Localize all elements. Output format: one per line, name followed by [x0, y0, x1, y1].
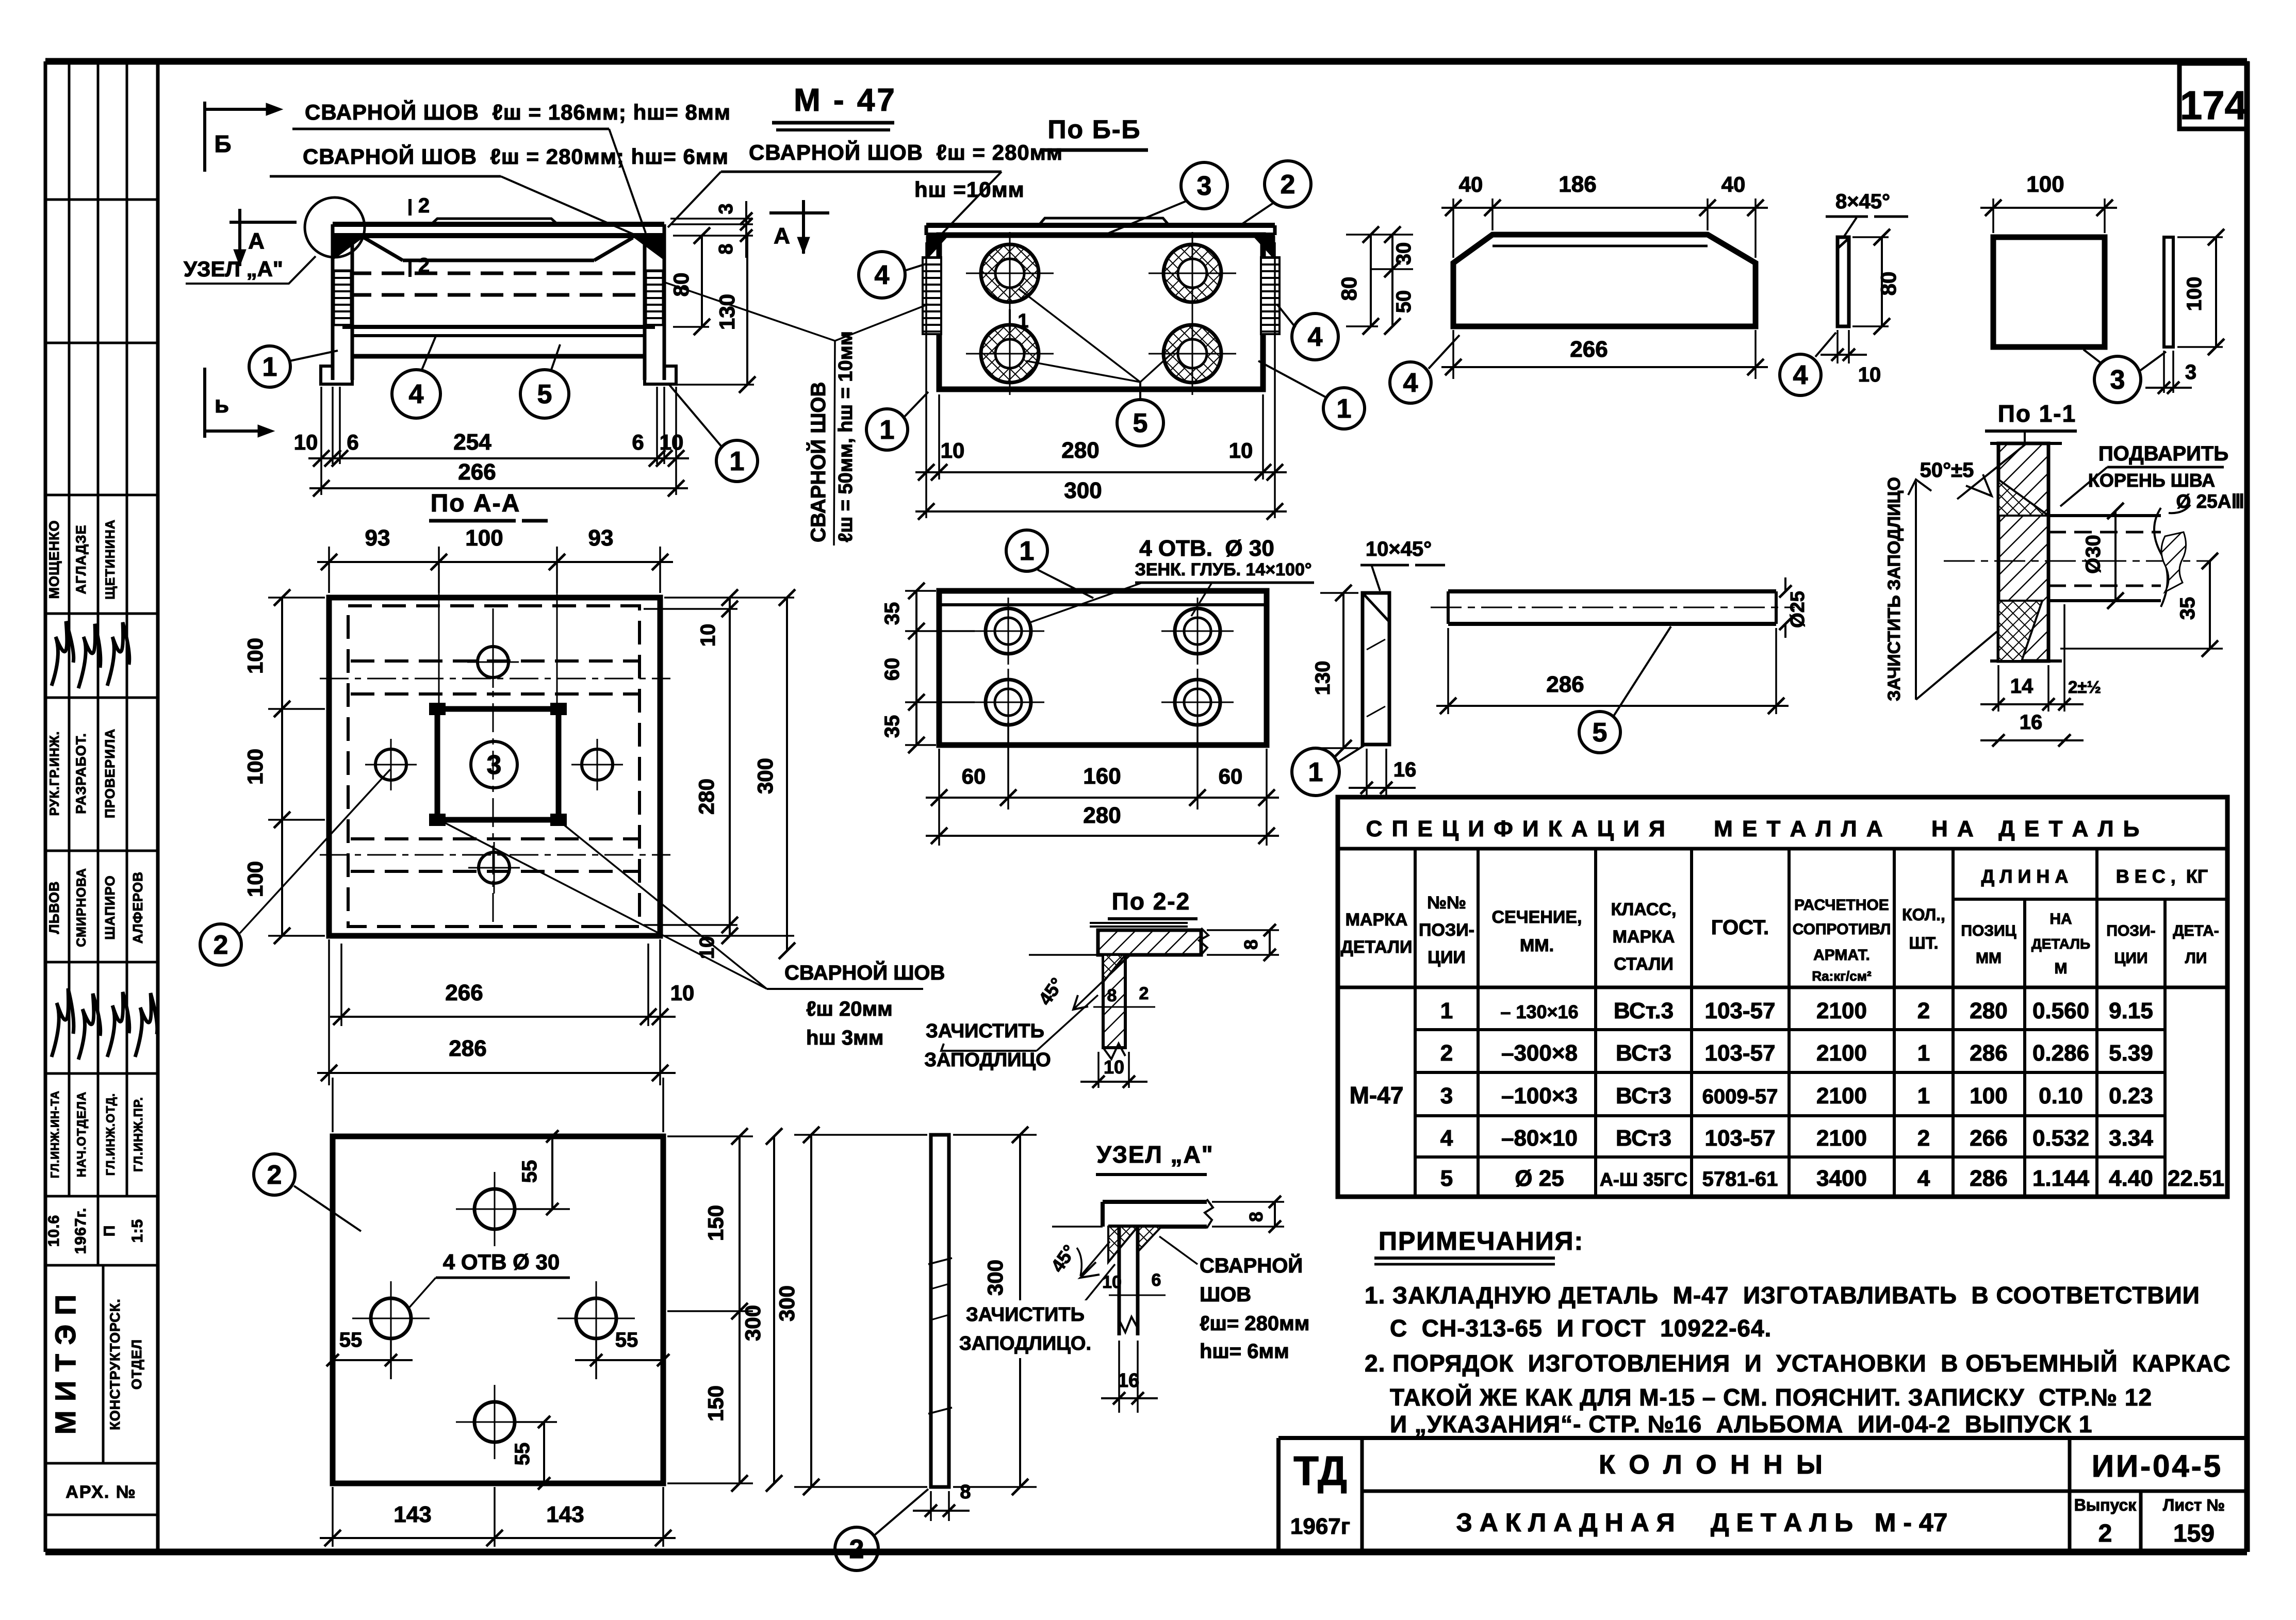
main plate pos1 section B-B	[939, 235, 1263, 389]
svg-text:ℓш= 280мм: ℓш= 280мм	[1200, 1312, 1309, 1335]
svg-text:266: 266	[1970, 1126, 2007, 1151]
dim 8 right of plate	[1207, 929, 1279, 931]
sidebar row line	[45, 199, 158, 201]
svg-text:СВАРНОЙ ШОВ ℓш = 280мм: СВАРНОЙ ШОВ ℓш = 280мм	[749, 140, 1063, 164]
balloon 4 right B-B	[1292, 313, 1338, 360]
pos1 leg section hatched	[1103, 955, 1125, 1048]
svg-text:5: 5	[1440, 1166, 1453, 1191]
svg-text:143: 143	[393, 1502, 431, 1527]
svg-text:2100: 2100	[1816, 1040, 1867, 1066]
pos2 plate section hatched	[1098, 930, 1201, 955]
45 deg leader 2-2	[1073, 954, 1131, 1010]
rod dim line 286	[1436, 705, 1789, 707]
svg-text:40: 40	[1721, 172, 1746, 196]
svg-text:286: 286	[1970, 1040, 2007, 1066]
leg break V	[1103, 1044, 1125, 1059]
svg-text:100: 100	[2183, 277, 2206, 311]
svg-text:2: 2	[1440, 1040, 1453, 1066]
svg-text:3: 3	[1197, 171, 1212, 201]
B-B dim ext lines	[925, 242, 927, 518]
svg-text:280: 280	[1970, 998, 2007, 1023]
svg-text:1: 1	[1917, 1083, 1930, 1109]
svg-text:2: 2	[1281, 170, 1295, 200]
svg-text:– 130×16: – 130×16	[1500, 1001, 1578, 1022]
sidebar row line	[45, 697, 158, 699]
balloon 1 bottom right of view1	[716, 440, 758, 482]
svg-text:3: 3	[2110, 365, 2125, 395]
svg-text:16: 16	[1393, 758, 1417, 781]
50 deg chamfer line	[1957, 442, 2028, 499]
svg-text:ВСт.3: ВСт.3	[1614, 998, 1674, 1023]
plan hole left	[375, 749, 406, 780]
sidebar column line 3	[126, 61, 128, 1196]
svg-text:ДЕТАЛЬ: ДЕТАЛЬ	[2031, 936, 2090, 952]
svg-text:ВСт3: ВСт3	[1616, 1083, 1671, 1109]
svg-text:22.51: 22.51	[2168, 1166, 2224, 1191]
spec table row line	[1415, 1028, 2165, 1031]
svg-text:1: 1	[1020, 536, 1035, 566]
balloon 2 leader	[294, 1186, 361, 1231]
sheet frame right border	[2244, 61, 2250, 1552]
svg-text:4 ОТВ Ø 30: 4 ОТВ Ø 30	[443, 1250, 560, 1274]
uzel weld left crosshatch	[1108, 1227, 1138, 1262]
plate pos2 face view square	[333, 1136, 663, 1483]
pos2 hole right	[576, 1298, 616, 1338]
hidden dashed line upper	[349, 272, 649, 275]
svg-text:0.532: 0.532	[2032, 1126, 2089, 1151]
balloon 4 right leader	[1277, 304, 1295, 327]
sidebar row line	[45, 1072, 158, 1075]
plate pos3 face view square	[1993, 237, 2105, 347]
spec table column line	[1690, 849, 1693, 1197]
svg-text:40: 40	[1459, 172, 1483, 196]
svg-text:П: П	[101, 1225, 118, 1237]
svg-text:М-47: М-47	[1350, 1082, 1404, 1109]
svg-text:8: 8	[1245, 1212, 1267, 1222]
weld note leader left to view1	[668, 172, 721, 227]
svg-text:КОРЕНЬ ШВА: КОРЕНЬ ШВА	[2088, 470, 2215, 491]
svg-text:И „УКАЗАНИЯ“- СТР. №16 АЛЬБОМ: И „УКАЗАНИЯ“- СТР. №16 АЛЬБОМА ИИ-04-2 В…	[1390, 1411, 2092, 1437]
svg-text:160: 160	[1083, 764, 1121, 789]
end plate pos4 right hatched	[1261, 257, 1280, 334]
label leaders to holes	[1029, 583, 1142, 623]
balloon 4 under trapezoid	[1390, 362, 1431, 403]
svg-text:6009-57: 6009-57	[1702, 1085, 1778, 1108]
weld triangle right	[633, 237, 663, 259]
svg-text:ПОЗИЦ: ПОЗИЦ	[1961, 922, 2016, 939]
balloon 3 bottom	[2094, 356, 2141, 403]
svg-text:50°±5: 50°±5	[1920, 459, 1974, 482]
pos4 edge chamfer line	[1838, 238, 1849, 249]
pos2 dim 300 right	[773, 1136, 775, 1483]
svg-text:2: 2	[849, 1534, 864, 1564]
svg-text:ЗАПОДЛИЦО: ЗАПОДЛИЦО	[924, 1049, 1051, 1071]
balloon 2 plan leader	[240, 769, 390, 933]
svg-text:5: 5	[1133, 408, 1148, 438]
anchor bar section top-left	[981, 244, 1039, 302]
dim diam 30	[2114, 511, 2117, 601]
svg-text:10: 10	[1858, 363, 1881, 386]
dim 30-50 for pos4 plate	[1391, 235, 1393, 326]
svg-text:8: 8	[715, 243, 737, 254]
weld note above B-B underline	[721, 171, 1002, 173]
svg-text:С СН-313-65 И ГОСТ 10922-64: С СН-313-65 И ГОСТ 10922-64.	[1390, 1315, 1772, 1342]
svg-text:1.144: 1.144	[2032, 1166, 2090, 1191]
weld triangle right B-B	[1253, 236, 1275, 260]
plate pos1 face view rect	[939, 591, 1267, 745]
svg-text:100: 100	[243, 749, 267, 785]
svg-text:80: 80	[1337, 277, 1361, 301]
svg-text:60: 60	[962, 764, 986, 788]
spec table header bottom line	[1338, 986, 2227, 989]
view1 dim 130 right	[673, 384, 754, 386]
uzel A-prime underline	[1096, 1173, 1207, 1176]
svg-text:100: 100	[243, 861, 267, 897]
column head chamfer right	[594, 238, 633, 260]
label leader pos2	[407, 1278, 436, 1310]
svg-text:35: 35	[881, 602, 904, 625]
svg-text:ЛИ: ЛИ	[2185, 950, 2207, 967]
svg-text:hш =10мм: hш =10мм	[914, 177, 1025, 202]
section cut 2 mark upper	[408, 199, 412, 216]
svg-text:М - 47: М - 47	[794, 82, 897, 118]
svg-text:А-Ш 35ГС: А-Ш 35ГС	[1600, 1169, 1687, 1190]
sidebar row line	[45, 1264, 158, 1267]
left leg pos1 plate	[331, 236, 335, 380]
view1 dim extension lines bottom	[320, 387, 322, 495]
pos4 edge view strip	[1838, 237, 1849, 326]
extra balloon 1 left	[866, 409, 908, 450]
svg-text:3: 3	[715, 203, 737, 214]
svg-text:50: 50	[1392, 290, 1415, 313]
svg-text:3400: 3400	[1816, 1166, 1867, 1191]
plan hole right	[582, 749, 613, 780]
balloon 5 rod	[1579, 712, 1620, 753]
dim 10 below leg	[1097, 1052, 1100, 1088]
pos1 dim line 280	[926, 835, 1279, 837]
svg-text:35: 35	[2176, 597, 2199, 620]
svg-text:60: 60	[1219, 764, 1243, 788]
pos1 edge dim 16	[1366, 749, 1368, 797]
pos2 dim 55 left	[333, 1359, 413, 1361]
plan outer square plate pos2	[329, 598, 660, 936]
title block TD cell right edge	[1360, 1438, 1364, 1552]
svg-text:14: 14	[2010, 675, 2033, 698]
pos4 trapezoid inner top line	[1493, 245, 1708, 247]
label underline	[1135, 582, 1314, 584]
svg-text:2: 2	[1917, 1126, 1930, 1151]
bar bottom cap line	[1990, 659, 2062, 663]
spec table outer border	[1338, 797, 2227, 1197]
svg-text:1: 1	[1337, 394, 1352, 424]
bar top cap line	[1990, 442, 2062, 445]
svg-text:5: 5	[537, 379, 552, 409]
svg-text:В Е С , КГ: В Е С , КГ	[2116, 866, 2208, 887]
svg-text:5.39: 5.39	[2109, 1040, 2153, 1066]
svg-text:2: 2	[1139, 984, 1149, 1003]
balloon 5 leaders to anchor bars	[1139, 382, 1141, 400]
svg-text:Выпуск: Выпуск	[2074, 1496, 2137, 1514]
pos1 dim line 60-160-60	[926, 797, 1279, 799]
weld note column leader to view1	[665, 283, 835, 341]
svg-text:З А К Л А Д Н А Я Д Е Т А: З А К Л А Д Н А Я Д Е Т А Л Ь М - 47	[1456, 1508, 1948, 1537]
svg-text:0.23: 0.23	[2109, 1083, 2153, 1109]
svg-text:1: 1	[1440, 998, 1453, 1023]
pos2 plate break jag	[1199, 928, 1208, 955]
sidebar signature 6	[107, 992, 129, 1057]
weld crosshatch above rod	[1998, 480, 2048, 516]
svg-text:1967г: 1967г	[1290, 1514, 1350, 1539]
right leg pos4 hatched strip	[646, 270, 663, 325]
svg-text:Ra:кг/см²: Ra:кг/см²	[1812, 968, 1872, 984]
svg-text:1: 1	[263, 352, 277, 382]
svg-text:4: 4	[409, 379, 424, 409]
uzel plate pos2	[1103, 1200, 1207, 1204]
svg-text:8×45°: 8×45°	[1835, 190, 1890, 213]
svg-text:103-57: 103-57	[1704, 1040, 1775, 1066]
view1 weld note 1 underline-leader	[292, 128, 609, 130]
plate pos3 strip on top	[431, 219, 557, 224]
plate pos2 top plate of view1	[333, 222, 664, 227]
weld note 20mm leaders from pos3 square	[442, 821, 767, 989]
spec table column line	[1787, 849, 1791, 1197]
balloon 1 left of view1	[249, 346, 290, 387]
svg-text:КЛАСС,: КЛАСС,	[1611, 900, 1677, 919]
sidebar signature 7	[135, 993, 157, 1057]
svg-text:103-57: 103-57	[1704, 1126, 1775, 1151]
page number box 174	[2179, 63, 2247, 129]
pos4 dim 266 ext lines	[1452, 330, 1454, 379]
pos2 dim 55 top hole	[516, 1208, 570, 1210]
svg-text:2100: 2100	[1816, 1083, 1867, 1109]
pos4 edge dim 80	[1852, 236, 1889, 238]
weld crosshatch corner 2-2	[1103, 955, 1125, 982]
spec table row line	[1415, 1114, 2165, 1117]
svg-text:130: 130	[715, 294, 739, 330]
plan hidden dashed line top pair	[351, 659, 639, 663]
svg-text:ТД: ТД	[1293, 1448, 1347, 1494]
pos2 hole top	[474, 1189, 515, 1229]
white backing for uzel zachistit note	[960, 1300, 1090, 1358]
svg-text:30: 30	[1392, 242, 1415, 266]
anchor rod pos5 view	[1448, 589, 1776, 593]
view1 dim line 10-6-254-6-10	[308, 457, 689, 459]
svg-text:10: 10	[670, 981, 695, 1005]
pos1 top inner line	[939, 603, 1267, 606]
svg-text:174: 174	[2180, 82, 2247, 128]
svg-text:ЗАЧИСТИТЬ: ЗАЧИСТИТЬ	[966, 1304, 1085, 1326]
pos4 dim line 40-186-40	[1441, 207, 1768, 209]
svg-text:1:5: 1:5	[129, 1219, 146, 1243]
svg-text:0.560: 0.560	[2032, 998, 2089, 1023]
pos3 strip on top B-B	[1039, 218, 1169, 225]
pos2 edge dim 300 left	[794, 1134, 927, 1136]
svg-text:100: 100	[1970, 1083, 2007, 1109]
rod stub hatch right of break	[2161, 532, 2186, 592]
sidebar signature 1	[52, 621, 74, 686]
right leg pos1 plate	[643, 236, 647, 380]
dim 16	[1980, 739, 2084, 741]
svg-text:СОПРОТИВЛ: СОПРОТИВЛ	[1793, 921, 1891, 938]
pos1 hole bottom-left	[986, 680, 1031, 725]
pos1 hole top-right	[1175, 608, 1220, 654]
svg-text:АРХ. №: АРХ. №	[65, 1482, 136, 1502]
balloon 1 edge view	[1292, 748, 1339, 796]
column body bottom line	[342, 325, 655, 329]
anchor bar section bottom-left	[981, 325, 1039, 383]
spec table row line	[1415, 1155, 2165, 1159]
section 1-1 underline	[1985, 429, 2077, 433]
svg-text:КОНСТРУКТОРСК.: КОНСТРУКТОРСК.	[107, 1298, 123, 1430]
sidebar row line	[45, 494, 158, 497]
diam25 leader	[2169, 505, 2190, 513]
sidebar row line	[45, 850, 158, 852]
spec table column line	[1594, 849, 1597, 1197]
svg-text:280: 280	[694, 779, 718, 815]
plan vertical centerline	[493, 608, 494, 928]
balloon 2 edge view	[835, 1527, 878, 1571]
svg-text:10: 10	[294, 430, 318, 454]
svg-text:4: 4	[1403, 368, 1418, 398]
balloon 1 right B-B	[1323, 388, 1365, 429]
plan center square pos3	[437, 709, 559, 820]
svg-text:ДЕТАЛИ: ДЕТАЛИ	[1341, 937, 1413, 957]
svg-text:10: 10	[660, 430, 684, 454]
svg-text:60: 60	[881, 658, 904, 681]
balloon 1 edge leader	[1338, 745, 1366, 762]
pos3 edge dim 100 vertical	[2177, 236, 2223, 238]
weld note 20mm underline	[767, 988, 923, 990]
svg-text:55: 55	[511, 1443, 534, 1466]
svg-text:1967г.: 1967г.	[72, 1208, 89, 1254]
svg-text:100: 100	[2026, 172, 2064, 197]
svg-text:ЗЕНК. ГЛУБ. 14×100°: ЗЕНК. ГЛУБ. 14×100°	[1135, 560, 1312, 580]
view1 dim line 266	[309, 487, 688, 489]
pos2 dim 55 right	[575, 1359, 663, 1361]
M-47 underline	[772, 121, 894, 125]
svg-text:РАЗРАБОТ.: РАЗРАБОТ.	[73, 733, 89, 814]
balloon 1 leader	[1038, 570, 1093, 598]
pos3 dim 100 ext lines	[1992, 199, 1994, 233]
50 deg arrow	[1966, 474, 1992, 496]
weld triangle left B-B	[926, 236, 948, 260]
svg-text:АЛФЕРОВ: АЛФЕРОВ	[130, 871, 145, 944]
spec table subheader line (Dlina/Ves)	[1953, 898, 2227, 901]
svg-text:280: 280	[1083, 803, 1121, 828]
svg-text:ЛЬВОВ: ЛЬВОВ	[46, 881, 62, 934]
svg-text:ПОЗИ-: ПОЗИ-	[2106, 922, 2155, 939]
svg-text:300: 300	[741, 1305, 765, 1341]
svg-text:ГЛ.ИНЖ.ИН-ТА: ГЛ.ИНЖ.ИН-ТА	[48, 1090, 61, 1178]
pos mark 1 small	[1009, 309, 1011, 330]
svg-text:10: 10	[697, 624, 719, 647]
svg-text:АГЛАДЗЕ: АГЛАДЗЕ	[73, 524, 89, 594]
pos3 dim line 100	[1980, 207, 2117, 209]
plan bottom dims 266-10	[328, 939, 330, 1085]
plan dim 286	[317, 1072, 676, 1074]
svg-text:1. ЗАКЛАДНУЮ ДЕТАЛЬ М-47 ИЗГ: 1. ЗАКЛАДНУЮ ДЕТАЛЬ М-47 ИЗГОТАВЛИВАТЬ В…	[1365, 1282, 2200, 1309]
svg-text:ММ: ММ	[1976, 950, 2002, 967]
sheet frame top border	[45, 58, 2247, 65]
anchor bar section top-right	[1163, 244, 1221, 302]
weld crosshatch below rod	[1998, 601, 2042, 661]
svg-text:ЦИИ: ЦИИ	[1428, 948, 1466, 967]
uzel dim 8 right	[1212, 1201, 1284, 1203]
pos1 edge view strip	[1363, 593, 1389, 745]
svg-text:ℓш 20мм: ℓш 20мм	[806, 998, 893, 1020]
weld note column leader to B-B	[835, 304, 928, 341]
chamfer label leader	[1844, 218, 1857, 236]
plan dim line 93-100-93	[317, 561, 673, 563]
plan top dim ext lines	[438, 547, 440, 593]
svg-text:–100×3: –100×3	[1501, 1083, 1578, 1109]
rod centerline	[1431, 607, 1795, 608]
pos4 dims 40-186-40 ext lines	[1452, 199, 1454, 258]
svg-text:35: 35	[881, 715, 904, 738]
svg-text:16: 16	[1118, 1370, 1139, 1392]
left leg foot	[321, 366, 352, 384]
svg-text:103-57: 103-57	[1704, 998, 1775, 1023]
balloon 5 leader	[551, 344, 560, 370]
plan left dims 100x3	[268, 597, 325, 599]
rod dashed lines	[2048, 531, 2161, 534]
balloon 4 left leader	[905, 264, 926, 271]
section marker A right	[769, 211, 829, 214]
svg-text:ШОВ: ШОВ	[1200, 1283, 1251, 1306]
svg-text:2: 2	[418, 254, 430, 277]
svg-text:3: 3	[2185, 361, 2196, 384]
svg-text:ОТДЕЛ: ОТДЕЛ	[129, 1339, 144, 1390]
svg-text:55: 55	[615, 1329, 638, 1351]
svg-text:СВАРНОЙ ШОВ ℓш = 280мм; hш= 6: СВАРНОЙ ШОВ ℓш = 280мм; hш= 6мм	[303, 144, 729, 169]
svg-text:3: 3	[487, 750, 502, 780]
plan inner dashed square (266)	[348, 606, 639, 927]
svg-text:СВАРНОЙ ШОВ: СВАРНОЙ ШОВ	[784, 961, 945, 984]
svg-text:А: А	[774, 223, 790, 249]
svg-text:НАЧ.ОТДЕЛА: НАЧ.ОТДЕЛА	[75, 1092, 89, 1177]
pos2 edge dim 300 right	[953, 1134, 1037, 1136]
svg-text:150: 150	[703, 1205, 728, 1241]
svg-text:130: 130	[1311, 661, 1334, 696]
svg-text:2: 2	[214, 930, 228, 960]
svg-text:ДЕТА-: ДЕТА-	[2173, 922, 2219, 939]
svg-text:10: 10	[1104, 1056, 1124, 1078]
svg-text:93: 93	[365, 525, 390, 551]
svg-text:2100: 2100	[1816, 998, 1867, 1023]
svg-text:ЗАЧИСТИТЬ: ЗАЧИСТИТЬ	[926, 1020, 1044, 1042]
pos2 edge break marks	[928, 1258, 952, 1264]
plan dash-dot centerline horizontal upper	[320, 678, 670, 680]
plate pos4 face view trapezoid	[1453, 235, 1756, 326]
pos2 dim 150-150 right	[667, 1135, 753, 1137]
bottom band line 1	[352, 334, 645, 337]
svg-text:6: 6	[632, 430, 644, 454]
title block divider vypusk/list	[2139, 1491, 2143, 1552]
balloon 1 pos1 view	[1006, 530, 1047, 571]
svg-text:2100: 2100	[1816, 1126, 1867, 1151]
svg-text:ПОДВАРИТЬ: ПОДВАРИТЬ	[2098, 442, 2228, 465]
svg-text:3.34: 3.34	[2109, 1126, 2153, 1151]
balloon 2 edge leader	[874, 1489, 928, 1535]
svg-text:150: 150	[703, 1385, 728, 1421]
svg-text:УЗЕЛ „А": УЗЕЛ „А"	[1096, 1141, 1213, 1168]
balloon 4 leader	[422, 336, 436, 370]
plate pos1 bar section hatched	[1998, 443, 2048, 661]
svg-text:10×45°: 10×45°	[1366, 538, 1432, 560]
pos1 bottom dim ext lines	[938, 749, 940, 846]
svg-text:МОЩЕНКО: МОЩЕНКО	[46, 520, 62, 599]
svg-text:2: 2	[418, 194, 430, 217]
